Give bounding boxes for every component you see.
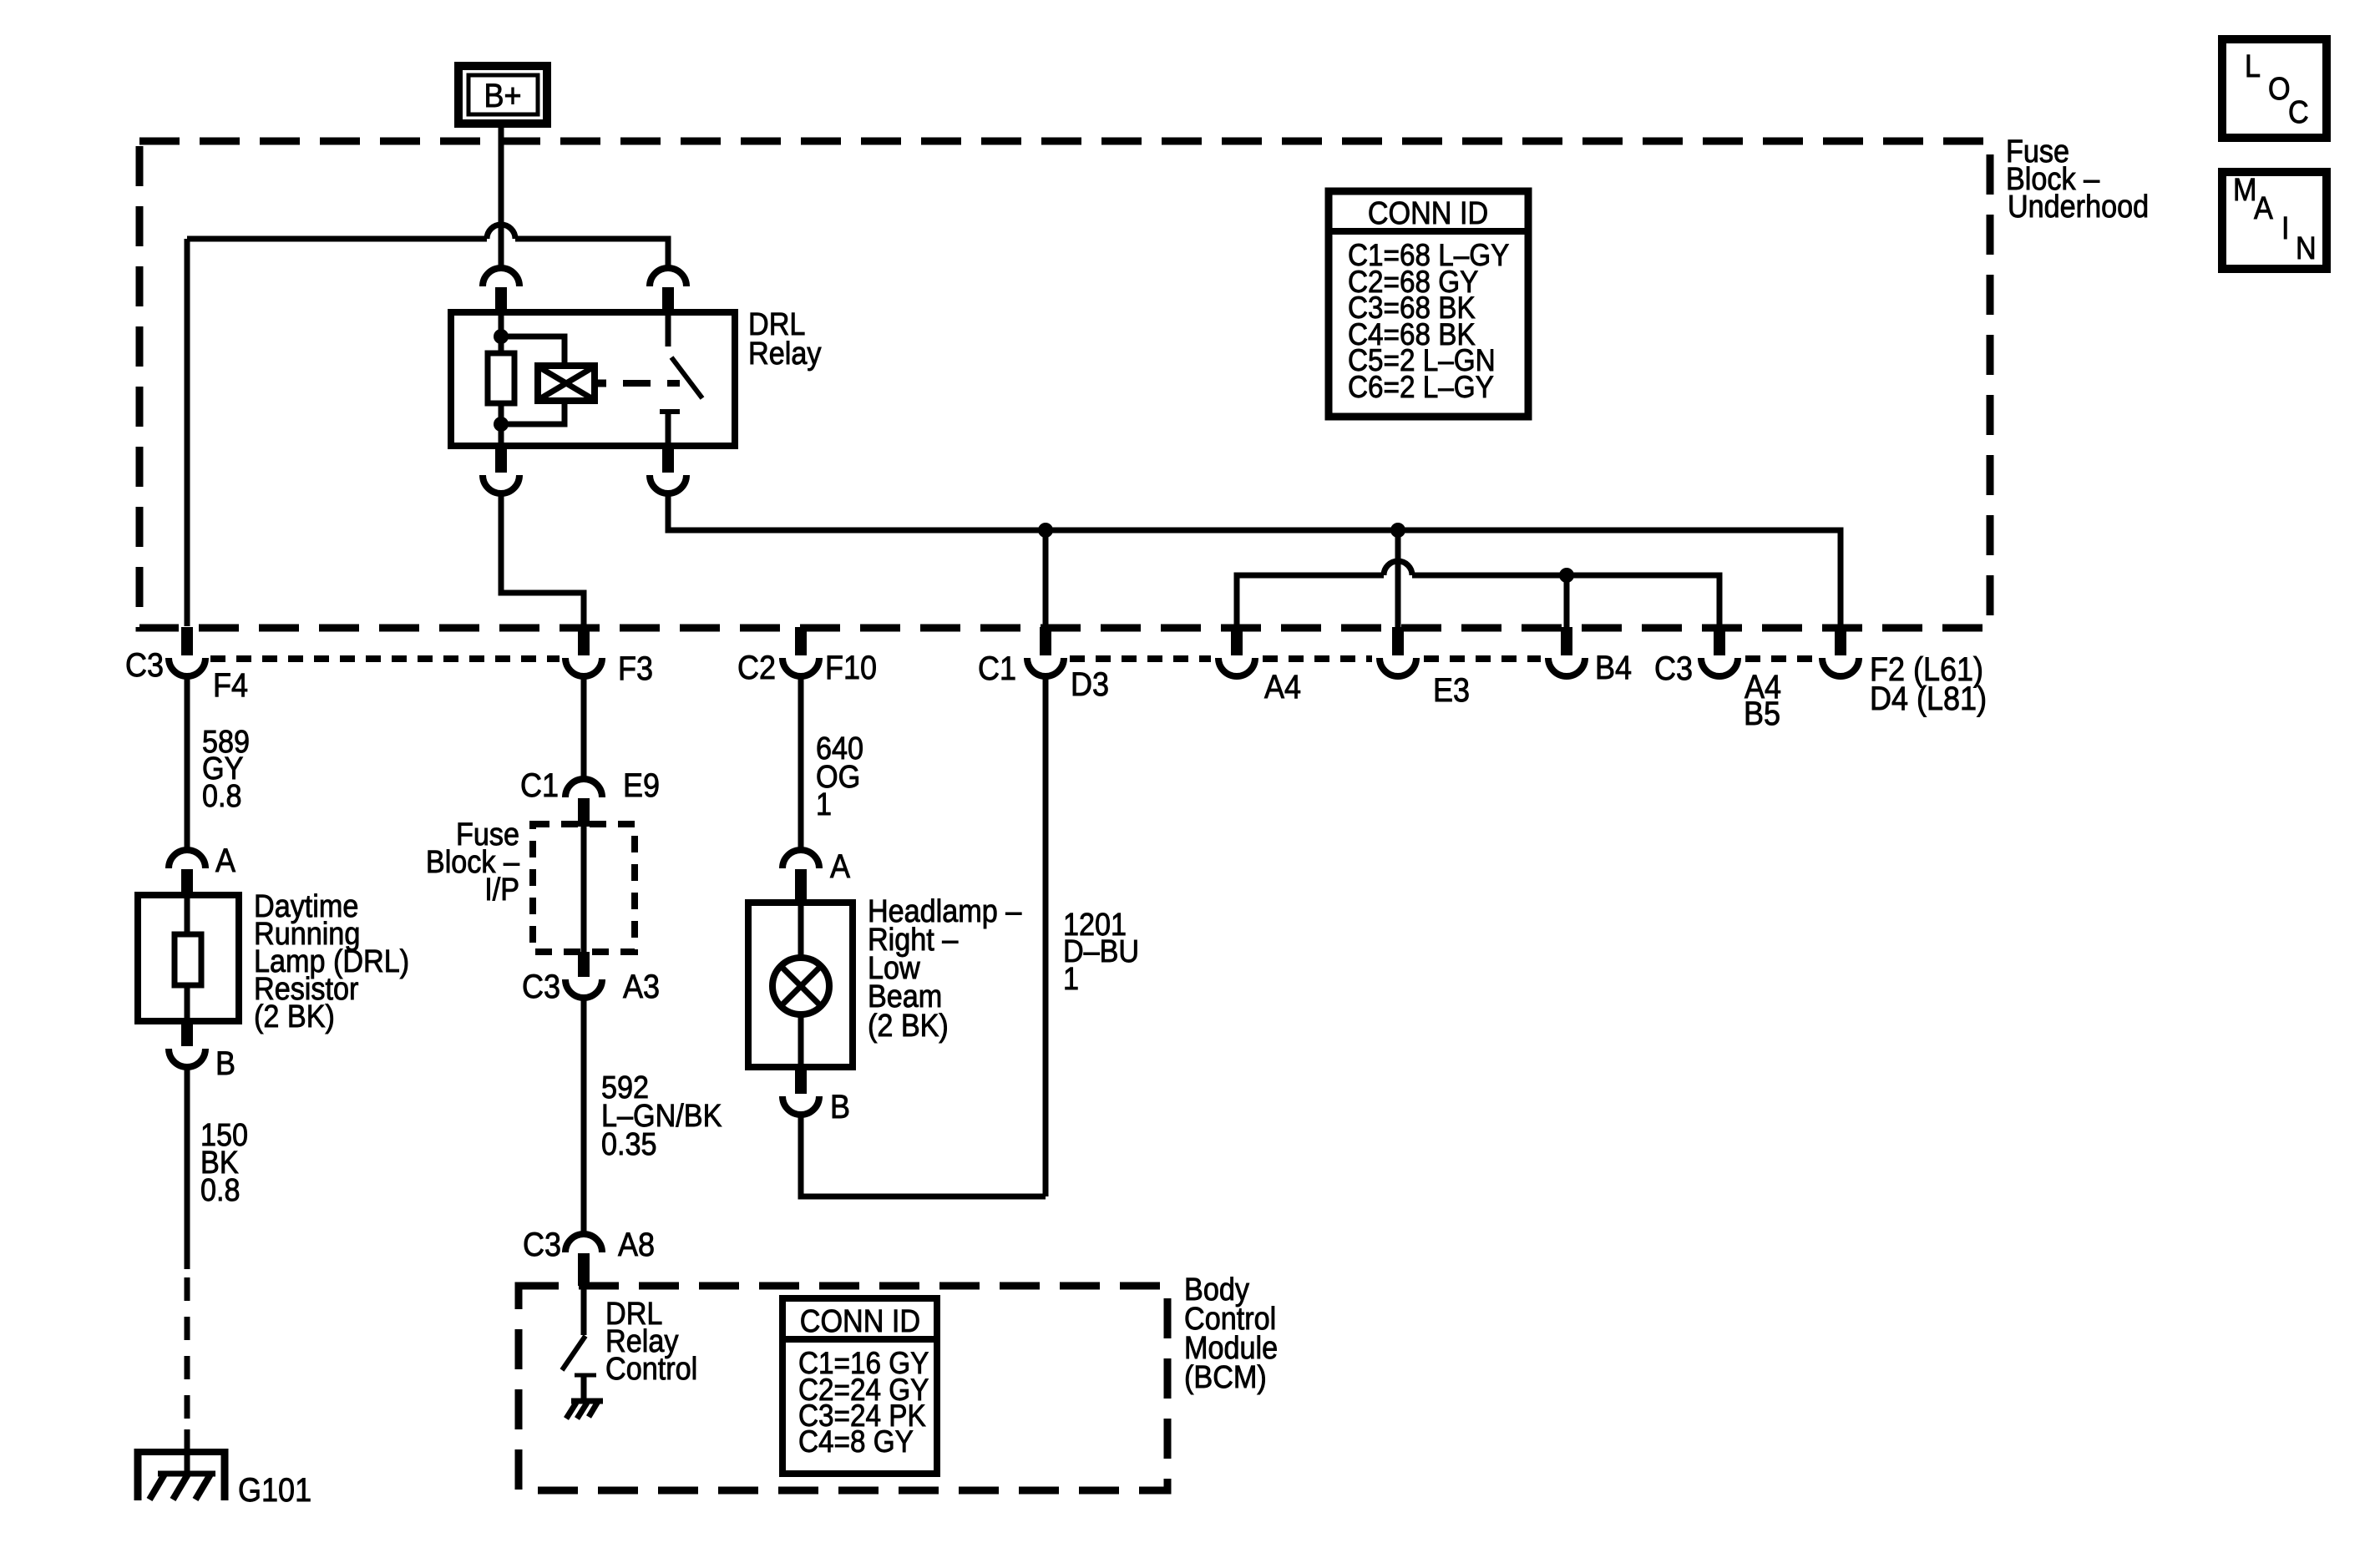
svg-text:D3: D3: [1071, 666, 1109, 703]
wire bus drop to C1/D3: [1043, 530, 1049, 629]
bulb lamp symbol: [772, 958, 829, 1014]
wire 150 BK to ground: [185, 1067, 190, 1474]
ground symbol (BCM internal): [566, 1400, 603, 1419]
node second bus junction B4: [1559, 568, 1574, 583]
svg-text:0.35: 0.35: [601, 1126, 657, 1161]
relay switch contacts and blade: [660, 312, 702, 446]
label 1201 D-BU 1: [1063, 906, 1139, 996]
label Fuse Block - Underhood: [2006, 133, 2149, 224]
svg-text:E9: E9: [623, 767, 660, 804]
MAIN reference box: [2222, 171, 2327, 269]
svg-text:CONN ID: CONN ID: [800, 1303, 920, 1338]
DRL relay control switch: [562, 1286, 596, 1401]
relay internal: coil feed wire: [499, 312, 504, 353]
svg-text:C1: C1: [978, 650, 1016, 687]
DRL relay box: [451, 312, 735, 446]
svg-text:B: B: [215, 1045, 235, 1082]
LOC reference box: [2222, 39, 2327, 138]
label Fuse Block - I/P: [426, 816, 520, 907]
label Daytime Running Lamp (DRL) Resistor (2 BK): [254, 888, 409, 1034]
connector C3/A3: [522, 969, 660, 1005]
svg-text:(2 BK): (2 BK): [254, 998, 335, 1034]
connector A (DRL resistor): [169, 842, 236, 895]
svg-text:A4: A4: [1264, 669, 1301, 706]
node bus junction D3: [1038, 523, 1053, 538]
svg-text:F10: F10: [825, 650, 877, 686]
svg-text:A3: A3: [623, 969, 660, 1005]
second bus wire A4-B4-C3 with hop over E3 drop: [1237, 561, 1719, 629]
svg-text:1: 1: [816, 786, 832, 822]
actuator dashes coil to switch: [623, 380, 680, 387]
svg-text:O: O: [2268, 70, 2291, 106]
svg-text:A: A: [2254, 190, 2274, 225]
svg-text:0.8: 0.8: [200, 1171, 241, 1207]
node junction top of resistor: [494, 329, 509, 344]
svg-text:B+: B+: [484, 78, 521, 114]
fine dashed connector row segment F4-F3: [210, 655, 560, 662]
svg-text:C6=2 L–GY: C6=2 L–GY: [1348, 370, 1494, 404]
svg-text:B: B: [830, 1089, 850, 1126]
ground G101: [134, 1449, 311, 1509]
wire headlamp B to BCM D3 (1201 D-BU): [801, 1115, 1046, 1196]
svg-text:F4: F4: [213, 667, 248, 704]
label Body Control Module (BCM): [1184, 1271, 1278, 1394]
svg-text:A: A: [215, 842, 236, 879]
svg-text:1: 1: [1063, 960, 1079, 996]
node junction bottom of resistor: [494, 417, 509, 432]
svg-text:G101: G101: [238, 1472, 311, 1509]
connector A4: [1218, 627, 1301, 706]
label DRL Relay: [748, 306, 821, 371]
svg-text:E3: E3: [1433, 672, 1470, 709]
CONN ID table (fuse block underhood): [1329, 191, 1528, 417]
node bus junction E3: [1390, 523, 1405, 538]
connector F2/D4: [1822, 627, 1987, 717]
relay coil (box with X): [538, 366, 606, 401]
connector relay pin bottom-right (stub+arc): [662, 446, 674, 473]
svg-text:N: N: [2296, 230, 2317, 266]
fine dashed connector row segment D3-F2: [1070, 655, 1815, 662]
svg-text:0.8: 0.8: [202, 777, 242, 813]
CONN ID table (BCM): [782, 1298, 937, 1474]
connector A (headlamp): [782, 848, 851, 903]
DRL resistor box: [138, 895, 239, 1021]
wire relay bottom-right to bus: [668, 493, 1841, 629]
wire drop to B4: [1564, 575, 1570, 629]
label DRL Relay Control: [605, 1295, 697, 1386]
svg-text:I/P: I/P: [484, 871, 519, 907]
wire left branch down to C3/F4: [185, 239, 190, 626]
connector B4: [1548, 627, 1632, 686]
svg-text:L: L: [2245, 48, 2261, 83]
svg-text:(2 BK): (2 BK): [868, 1007, 949, 1043]
svg-text:Underhood: Underhood: [2008, 188, 2149, 224]
svg-text:C4=8 GY: C4=8 GY: [798, 1424, 914, 1459]
fuse block underhood dashed box: [139, 141, 1990, 628]
connector C3/A8: [523, 1227, 655, 1286]
connector C3 / A4 B5: [1654, 627, 1781, 732]
connector E3: [1380, 627, 1470, 709]
svg-text:F3: F3: [618, 650, 653, 687]
svg-text:C3: C3: [1654, 650, 1693, 687]
connector C1/D3: [978, 627, 1109, 703]
wire through I/P fuse: [581, 827, 587, 977]
label 640 OG 1: [816, 730, 863, 822]
label 592 L-GN/BK 0.35: [601, 1069, 722, 1161]
headlamp right low beam box: [748, 903, 853, 1067]
svg-text:Control: Control: [605, 1350, 697, 1386]
wire F3 to E9: [581, 676, 587, 779]
svg-text:CONN ID: CONN ID: [1368, 195, 1488, 230]
connector relay pin bottom-left (stub+arc): [495, 446, 507, 473]
svg-text:C3: C3: [523, 1227, 561, 1263]
wire 640 OG F10 to headlamp A: [798, 676, 804, 850]
connector relay pin top-right (arc): [650, 268, 686, 286]
wire horizontal B+ bus to relay switch pin with hop over coil wire: [187, 225, 668, 268]
connector B (DRL resistor): [169, 1021, 235, 1082]
wire relay bottom-left to F3: [501, 493, 584, 626]
svg-text:C3: C3: [125, 647, 164, 684]
wire C1/D3 down: [1043, 676, 1049, 1196]
connector F3: [565, 627, 653, 687]
battery feed B+: [458, 66, 547, 124]
svg-text:B4: B4: [1595, 650, 1632, 686]
svg-text:D4 (L81): D4 (L81): [1870, 680, 1987, 717]
label 150 BK 0.8: [200, 1116, 248, 1207]
svg-text:C2: C2: [737, 650, 776, 686]
svg-text:B5: B5: [1744, 696, 1780, 732]
label 589 GY 0.8: [202, 723, 250, 813]
svg-text:(BCM): (BCM): [1184, 1358, 1267, 1394]
wire B+ to relay coil pin: [499, 124, 504, 268]
svg-text:C3: C3: [522, 969, 560, 1005]
svg-text:C: C: [2288, 94, 2309, 129]
fuse block I/P dashed box: [533, 824, 635, 952]
resistor inside relay: [488, 353, 514, 403]
svg-text:I: I: [2281, 210, 2290, 245]
svg-text:A: A: [830, 848, 851, 885]
wire 589 GY F4 to DRL resistor A: [185, 676, 190, 849]
connector C3/F4: [125, 627, 248, 704]
svg-text:A8: A8: [618, 1227, 655, 1263]
wire 592 L-GN/BK A3 to A8: [581, 998, 587, 1234]
svg-text:Relay: Relay: [748, 335, 821, 371]
BCM dashed box: [519, 1286, 1167, 1490]
svg-text:C1: C1: [520, 767, 559, 804]
connector C1/E9: [520, 767, 660, 827]
connector C2/F10: [737, 627, 877, 686]
wire bus drop to E3: [1395, 530, 1401, 629]
label Headlamp - Right - Low Beam (2 BK): [868, 893, 1022, 1043]
connector relay pin top-left (arc): [483, 268, 519, 286]
connector B (headlamp): [782, 1067, 850, 1126]
relay coil parallel branch wiring: [501, 336, 565, 366]
